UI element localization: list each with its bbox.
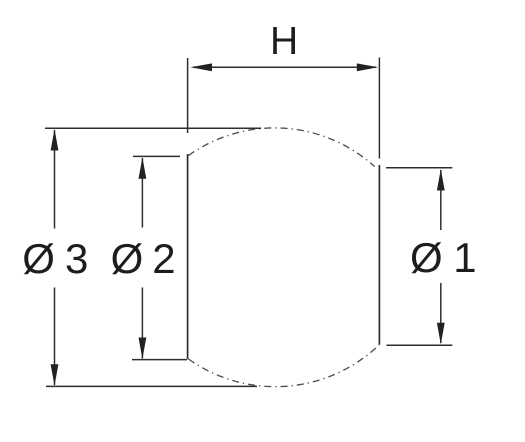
svg-text:1: 1 [453, 234, 476, 281]
arrowhead H left [191, 63, 213, 71]
dimension line D2 lower [141, 288, 143, 359]
dimension line D3 lower [54, 288, 56, 386]
svg-text:2: 2 [152, 235, 175, 282]
arrowhead H right [357, 63, 378, 71]
extension line H left [187, 58, 189, 133]
dimension line H [193, 66, 376, 68]
extension line D1 bottom [387, 344, 453, 346]
dimension line D2 upper [141, 158, 143, 228]
arrowhead D3 up [51, 129, 59, 151]
right flat edge of part [378, 165, 380, 345]
bottom spherical arc (phantom) [189, 345, 380, 387]
extension line D3 top [45, 127, 261, 129]
svg-text:H: H [270, 20, 298, 63]
arrowhead D1 down [437, 323, 445, 345]
left flat edge of part [187, 154, 189, 359]
extension line D1 top [386, 167, 452, 169]
top spherical arc (phantom) [189, 128, 375, 167]
svg-text:3: 3 [65, 235, 88, 282]
dimension line D3 upper [54, 130, 56, 229]
extension line H right [378, 58, 380, 159]
svg-text:Ø: Ø [22, 235, 55, 282]
svg-text:Ø: Ø [111, 235, 144, 282]
arrowhead D2 down [139, 338, 147, 360]
svg-text:Ø: Ø [410, 234, 443, 281]
dimension line D1 upper [440, 170, 442, 230]
extension line D2 top [133, 155, 180, 157]
arrowhead D1 up [437, 169, 445, 191]
extension line D3 bottom [46, 385, 257, 387]
arrowhead D3 down [51, 364, 59, 386]
arrowhead D2 up [139, 157, 147, 179]
dimension line D1 lower [440, 283, 442, 343]
extension line D2 bottom [132, 359, 187, 361]
